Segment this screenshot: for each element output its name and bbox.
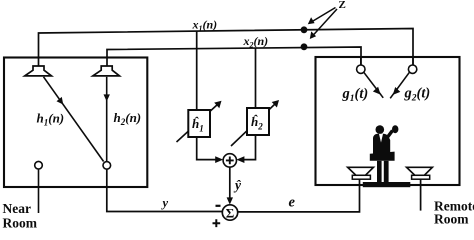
svg-text:Near: Near [3, 201, 31, 216]
talker hand object [392, 125, 398, 133]
talker podium [370, 152, 395, 161]
microphone M2 near room [103, 162, 111, 170]
svg-text:x2(n): x2(n) [243, 34, 269, 50]
svg-text:e: e [289, 195, 296, 211]
svg-text:h1(n): h1(n) [37, 111, 65, 128]
stand of remote right loudspeaker [420, 179, 422, 210]
sigma circle [222, 205, 237, 220]
microphone M1 near room [35, 161, 43, 213]
arrow from Z to node 1 [308, 8, 336, 25]
wire filter h1 output to adder [197, 137, 224, 163]
svg-text:Room: Room [434, 212, 469, 227]
adaptation arrow through filter h2 [231, 100, 279, 146]
svg-text:g2(t): g2(t) [404, 86, 431, 104]
echo path h2(n) arrow LS2 to mic2 [104, 77, 110, 162]
loudspeaker LS-R remote room [407, 167, 433, 210]
node on x1 line [301, 26, 308, 33]
loudspeaker LS1 near room [25, 66, 52, 76]
arrow from Z to node 2 [310, 9, 337, 39]
floor bar in remote room [363, 182, 411, 187]
svg-text:Σ: Σ [226, 205, 235, 220]
adaptation arrow through filter h1 [177, 101, 222, 142]
echo path h1(n) arrow LS1 to mic2 [44, 77, 104, 162]
talker raised arm [387, 131, 393, 139]
loudspeaker LS-L remote room [348, 167, 374, 179]
microphone G1 remote room [357, 57, 365, 73]
node on x2 line [301, 43, 308, 50]
adaptive filter box h2 [247, 108, 269, 135]
talker torso [373, 134, 390, 154]
wire y from mic2 to sigma [107, 169, 223, 211]
svg-text:ŷ: ŷ [233, 178, 242, 193]
wire y-hat to sigma [227, 167, 233, 204]
svg-text:Z: Z [339, 0, 346, 11]
talker figure in remote room [370, 125, 399, 182]
remote room box [316, 57, 460, 185]
svg-text:x1(n): x1(n) [192, 17, 218, 33]
wire e from sigma to remote loudspeaker [238, 179, 360, 212]
wire drop to filter h1 [196, 31, 198, 111]
svg-text:Room: Room [3, 216, 38, 229]
adder circle (+) [223, 154, 236, 167]
wire x2(n) [107, 47, 361, 66]
talker head [376, 125, 385, 134]
label minus [216, 205, 221, 207]
microphone G2 remote room [408, 57, 416, 73]
talker legs [377, 161, 382, 183]
path g1(t) arrow [364, 72, 383, 98]
wire drop to filter h2 [255, 48, 257, 109]
svg-text:g1(t): g1(t) [342, 86, 369, 104]
loudspeaker LS2 near room [93, 66, 120, 76]
path g2(t) arrow [390, 72, 409, 98]
wire filter h2 output to adder [236, 135, 255, 163]
adaptive filter box h1 [188, 110, 210, 137]
svg-text:h2(n): h2(n) [114, 110, 142, 127]
near room box [4, 58, 147, 188]
label plus [213, 219, 221, 227]
svg-text:y: y [161, 196, 169, 210]
wire x1(n) [39, 29, 414, 67]
talker shirt [379, 134, 383, 143]
